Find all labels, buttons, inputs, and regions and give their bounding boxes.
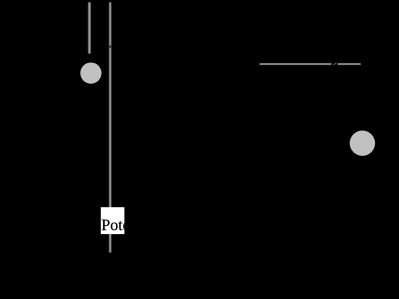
wire: horizontal rail left segment xyxy=(260,63,332,65)
label box: white background xyxy=(101,207,125,234)
label text: Potential (clipped) xyxy=(102,220,129,231)
node: slash mark in rail gap xyxy=(334,63,337,65)
node: dark notch on right track xyxy=(110,46,111,48)
wire: right vertical track line xyxy=(109,2,112,252)
ball 1: left gray sphere xyxy=(80,63,101,84)
wire: horizontal rail right segment xyxy=(338,63,361,65)
ball 2: right gray sphere xyxy=(350,131,375,156)
wire: left vertical string xyxy=(88,2,91,53)
